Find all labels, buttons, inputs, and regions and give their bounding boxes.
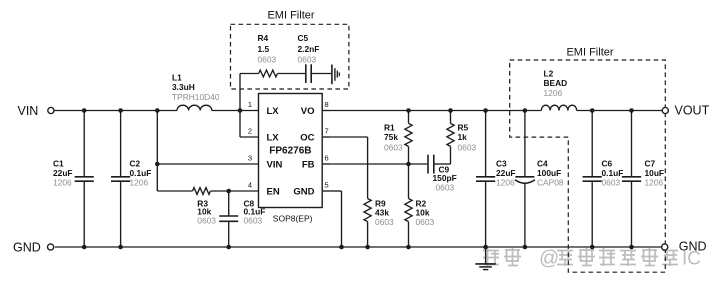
svg-text:6: 6	[325, 154, 329, 163]
svg-text:R5: R5	[458, 123, 469, 133]
svg-text:SOP8(EP): SOP8(EP)	[273, 214, 313, 224]
ground (EMI filter 1)	[332, 65, 339, 85]
svg-text:75k: 75k	[384, 132, 398, 142]
svg-text:L2: L2	[544, 69, 554, 79]
wire OC pin7	[331, 137, 368, 199]
svg-text:EMI Filter: EMI Filter	[566, 46, 613, 58]
svg-text:0603: 0603	[197, 216, 216, 226]
svg-text:0603: 0603	[298, 55, 317, 65]
svg-text:VIN: VIN	[267, 160, 283, 171]
node junction GND/C2	[118, 245, 123, 250]
svg-text:1206: 1206	[544, 88, 563, 98]
node junction GND/R2	[406, 245, 411, 250]
svg-text:0603: 0603	[436, 183, 455, 193]
svg-text:EN: EN	[267, 187, 280, 198]
svg-text:C6: C6	[602, 159, 613, 169]
capacitor C7	[622, 111, 664, 248]
svg-text:8: 8	[325, 100, 329, 109]
wire GND pin5	[331, 191, 342, 247]
svg-text:GND: GND	[293, 187, 314, 198]
node junction GND/C4	[523, 245, 528, 250]
capacitor C1	[53, 111, 94, 248]
svg-text:C7: C7	[645, 159, 656, 169]
node GND terminal right	[662, 240, 707, 254]
svg-text:TPRH10D40: TPRH10D40	[172, 92, 220, 102]
svg-text:3.3uH: 3.3uH	[172, 82, 195, 92]
op-amp U1 FP6276B	[248, 94, 331, 224]
node junction GND/C1	[82, 245, 87, 250]
node junction GND/C6	[590, 245, 595, 250]
svg-text:1206: 1206	[496, 178, 515, 188]
svg-text:FB: FB	[302, 160, 315, 171]
node junction GND/C7	[629, 245, 634, 250]
svg-text:0603: 0603	[602, 178, 621, 188]
svg-text:4: 4	[248, 181, 252, 190]
svg-text:22uF: 22uF	[53, 168, 73, 178]
svg-text:VIN: VIN	[18, 104, 39, 118]
svg-text:0603: 0603	[416, 217, 435, 227]
node junction LX/EMI	[238, 108, 243, 113]
svg-text:BEAD: BEAD	[544, 78, 568, 88]
svg-text:100uF: 100uF	[537, 168, 561, 178]
svg-text:1: 1	[248, 100, 252, 109]
svg-text:EMI Filter: EMI Filter	[267, 10, 314, 22]
svg-text:0603: 0603	[458, 143, 477, 153]
svg-text:LX: LX	[267, 133, 280, 144]
capacitor C9	[409, 155, 457, 193]
resistor R1	[384, 111, 412, 165]
svg-text:2.2nF: 2.2nF	[298, 44, 320, 54]
svg-text:R4: R4	[258, 33, 269, 43]
node junction GND/C3	[483, 245, 488, 250]
svg-text:150pF: 150pF	[433, 173, 457, 183]
resistor R3	[157, 188, 258, 226]
svg-text:0.1uF: 0.1uF	[602, 168, 624, 178]
wire FB pin6	[331, 163, 409, 165]
svg-text:7: 7	[325, 127, 329, 136]
node junction VIN/C1	[82, 108, 87, 113]
svg-text:C5: C5	[298, 33, 309, 43]
wire to VIN pin3	[157, 163, 258, 165]
svg-text:OC: OC	[300, 133, 314, 144]
node junction EN/C8	[226, 189, 231, 194]
EMI filter dashed box 1	[231, 24, 349, 89]
node junction VO/R1	[406, 108, 411, 113]
capacitor C4	[515, 111, 564, 248]
resistor R2	[405, 164, 435, 247]
node VIN terminal	[18, 104, 55, 118]
watermark background text	[483, 248, 701, 270]
node VOUT terminal	[662, 104, 709, 118]
svg-text:1206: 1206	[53, 178, 72, 188]
node junction VO/C4	[523, 108, 528, 113]
node junction VIN pin	[155, 162, 160, 167]
svg-text:5: 5	[325, 181, 329, 190]
node junction VIN/C2	[118, 108, 123, 113]
wire LX pin2	[240, 111, 259, 138]
wire EMI branch vertical	[239, 74, 241, 111]
node junction VO/C7	[629, 108, 634, 113]
resistor R4	[240, 33, 305, 77]
svg-text:L1: L1	[172, 73, 182, 83]
capacitor C2	[111, 111, 151, 248]
capacitor C6	[583, 111, 624, 248]
wire VIN branch vertical	[156, 111, 158, 192]
node junction VO/C6	[590, 108, 595, 113]
svg-text:C2: C2	[130, 159, 141, 169]
node junction VO/C3	[483, 108, 488, 113]
node junction VIN/R3 branch	[155, 108, 160, 113]
ground main	[475, 247, 495, 270]
svg-text:FP6276B: FP6276B	[269, 146, 311, 157]
EMI filter dashed box 2	[510, 60, 666, 272]
svg-text:GND: GND	[13, 241, 41, 255]
svg-text:C1: C1	[53, 159, 64, 169]
svg-text:43k: 43k	[375, 208, 389, 218]
resistor R9	[364, 199, 394, 248]
svg-text:0603: 0603	[375, 217, 394, 227]
node junction VO/R5	[448, 108, 453, 113]
svg-text:LX: LX	[267, 106, 280, 117]
node junction FB	[406, 162, 411, 167]
svg-text:10k: 10k	[416, 208, 430, 218]
capacitor C3	[476, 111, 516, 248]
svg-text:0603: 0603	[258, 55, 277, 65]
svg-text:1206: 1206	[645, 178, 664, 188]
svg-text:VOUT: VOUT	[675, 104, 710, 118]
svg-text:GND: GND	[679, 240, 707, 254]
inductor L1	[172, 73, 220, 111]
svg-text:CAP08: CAP08	[537, 178, 564, 188]
svg-text:1.5: 1.5	[258, 44, 270, 54]
node junction GND/R9	[365, 245, 370, 250]
node junction GND/C8	[226, 245, 231, 250]
svg-text:2: 2	[248, 127, 252, 136]
svg-text:R1: R1	[384, 123, 395, 133]
svg-text:0.1uF: 0.1uF	[130, 168, 152, 178]
capacitor C5	[298, 33, 332, 83]
node GND terminal left	[13, 241, 54, 255]
resistor R5	[447, 111, 477, 165]
node junction GND/pin5	[339, 245, 344, 250]
svg-text:10uF: 10uF	[645, 168, 665, 178]
svg-text:0603: 0603	[244, 216, 263, 226]
capacitor C8	[219, 191, 265, 247]
svg-text:1k: 1k	[458, 132, 468, 142]
svg-text:1206: 1206	[130, 178, 149, 188]
svg-text:3: 3	[248, 154, 252, 163]
wire GND rail	[55, 246, 662, 248]
svg-text:@: @	[539, 248, 559, 270]
wire VIN rail	[54, 110, 259, 112]
svg-text:VO: VO	[301, 106, 315, 117]
wire VO rail	[331, 110, 662, 112]
svg-text:0603: 0603	[384, 143, 403, 153]
svg-text:C3: C3	[496, 159, 507, 169]
svg-text:C4: C4	[537, 159, 548, 169]
svg-text:22uF: 22uF	[496, 168, 516, 178]
inductor L2	[541, 69, 576, 111]
